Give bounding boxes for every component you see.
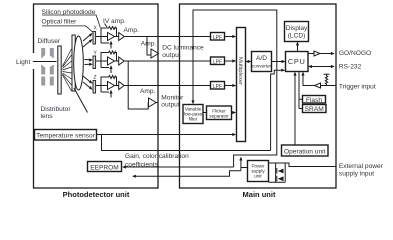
EEPROM — [88, 162, 122, 172]
distributor lens leader — [74, 88, 88, 113]
aperture slab column 2 upper — [50, 48, 54, 59]
svg-text:output: output — [162, 52, 181, 59]
wire flicker to multiplexer — [232, 111, 237, 114]
wire LPF1 to multiplexer — [225, 35, 237, 38]
wire LPF3 to multiplexer — [225, 84, 237, 87]
wire stub Z input — [101, 91, 109, 93]
LPF3 — [211, 82, 225, 91]
svg-text:RS-232: RS-232 — [339, 64, 362, 71]
aperture slab column 1 third — [41, 77, 45, 86]
svg-text:SRAM: SRAM — [305, 106, 324, 113]
wire temperature sensor to multiplexer — [97, 133, 237, 136]
op-amp A5 (monitor) — [149, 98, 157, 107]
SRAM memory — [303, 105, 327, 114]
gain control arrow Y — [109, 65, 112, 73]
svg-text:CPU: CPU — [288, 57, 306, 66]
svg-text:Temperature sensor: Temperature sensor — [36, 133, 95, 140]
wire diode X to IV amp — [96, 36, 108, 38]
svg-text:Light: Light — [16, 59, 30, 66]
svg-text:LPF: LPF — [213, 35, 222, 41]
wire Y channel to LPF2 — [125, 60, 211, 62]
resistor R feedback Y — [101, 51, 117, 68]
aperture slab column 1 upper — [41, 48, 45, 59]
wire trigger input — [301, 72, 336, 88]
aperture slab column 2 third — [50, 77, 54, 86]
wire flicker feed loop — [191, 10, 276, 167]
op-amp A6 (amp Z) — [119, 82, 125, 90]
variable low pass filter — [183, 105, 203, 124]
LPF1 — [211, 33, 225, 42]
resistor pull-up trigger — [324, 74, 330, 85]
wire coefficients to CPU — [271, 69, 286, 151]
op-amp U2 (IV amp Y) — [108, 57, 115, 65]
optical filter leader — [42, 26, 94, 33]
svg-text:GO/NOGO: GO/NOGO — [339, 50, 371, 57]
svg-text:unit: unit — [254, 174, 262, 179]
wire ADC to CPU — [272, 60, 286, 63]
svg-text:Flash: Flash — [306, 97, 322, 104]
operation unit — [282, 145, 329, 156]
op-amp A2 (amp X) — [119, 33, 125, 41]
svg-text:IV amp.: IV amp. — [103, 18, 126, 25]
power supply unit — [248, 161, 269, 182]
svg-text:Amp.: Amp. — [141, 41, 157, 48]
wire varLPF to flicker — [203, 112, 207, 114]
wire operation unit to CPU — [293, 72, 296, 145]
silicon photodiode leader — [42, 15, 100, 28]
aperture slab column 1 lower — [41, 65, 45, 75]
main unit enclosure — [180, 4, 337, 188]
svg-text:Optical filter: Optical filter — [42, 19, 78, 26]
LPF2 — [211, 57, 225, 66]
wire diode Y to IV amp — [96, 60, 108, 62]
photodetector unit enclosure — [32, 4, 158, 188]
svg-text:Multiplexer: Multiplexer — [237, 57, 243, 85]
distributor lens body — [72, 35, 83, 91]
gain control arrow Z — [109, 90, 112, 98]
diffuser plate — [58, 46, 61, 94]
wire Y IVamp to amp — [115, 60, 119, 62]
svg-text:Flicker: Flicker — [212, 108, 226, 113]
light rays to photodiode X — [83, 33, 93, 47]
svg-text:LPF: LPF — [213, 60, 222, 66]
svg-text:separator: separator — [209, 114, 229, 119]
wire CPU to display — [296, 42, 299, 52]
wire RS-232 — [308, 65, 335, 68]
svg-text:External power: External power — [339, 163, 384, 170]
diode protection network — [269, 163, 286, 182]
wire stub Y input — [101, 67, 109, 69]
gain control arrow X — [109, 41, 112, 49]
svg-text:Amp.: Amp. — [140, 88, 156, 95]
wire X IVamp to amp — [115, 36, 119, 38]
wire X channel to LPF1 — [125, 36, 211, 38]
svg-text:Amp.: Amp. — [124, 27, 140, 34]
photodiode Y — [93, 56, 96, 69]
resistor R feedback X — [101, 27, 117, 44]
svg-text:A/D: A/D — [256, 55, 267, 62]
aperture slab column 2 lower — [50, 65, 54, 75]
op-amp U3 (IV amp Z) — [108, 82, 115, 90]
wire LPF2 to multiplexer — [225, 59, 237, 62]
multiplexer — [237, 28, 246, 142]
svg-text:Main unit: Main unit — [243, 190, 276, 199]
resistor R feedback Z — [101, 76, 117, 93]
wire Z IVamp to amp — [115, 85, 119, 87]
svg-text:EEPROM: EEPROM — [90, 165, 119, 172]
photodiode Z — [93, 81, 96, 94]
photodiode X — [93, 32, 96, 45]
op-amp U1 (IV amp X) — [108, 33, 115, 41]
svg-text:Operation unit: Operation unit — [284, 149, 326, 156]
wire power supply output arrow — [239, 157, 247, 171]
svg-text:Monitor: Monitor — [161, 95, 184, 102]
wire Z channel to LPF3 — [125, 85, 211, 87]
svg-text:output: output — [161, 102, 180, 109]
svg-text:Diffuser: Diffuser — [38, 38, 61, 45]
svg-text:Photodetector unit: Photodetector unit — [63, 190, 130, 199]
wire temp branch down — [102, 135, 271, 151]
wire EEPROM data — [122, 165, 234, 168]
wire CPU to memories — [299, 72, 303, 109]
light input wire — [33, 61, 57, 63]
temperature sensor — [35, 130, 97, 141]
svg-text:(LCD): (LCD) — [288, 33, 306, 40]
wire diode Z to IV amp — [96, 85, 108, 87]
svg-text:lens: lens — [41, 113, 54, 120]
wire external power input — [269, 163, 337, 167]
svg-text:Display: Display — [286, 25, 308, 32]
wire GO/NOGO output — [308, 51, 335, 56]
light rays to photodiode Z — [83, 76, 93, 90]
svg-text:Distributor: Distributor — [41, 106, 72, 113]
wire monitor amp out — [156, 102, 158, 104]
svg-text:LPF: LPF — [213, 84, 222, 90]
svg-text:Gain, color calibration: Gain, color calibration — [125, 153, 189, 160]
wire monitor tap — [128, 61, 148, 109]
svg-text:filter: filter — [189, 117, 198, 122]
wire multiplexer to ADC — [246, 60, 252, 63]
flash memory — [303, 96, 326, 104]
svg-text:supply input: supply input — [339, 170, 374, 177]
wire DC luminance tap — [147, 37, 151, 56]
light rays fan — [63, 49, 72, 91]
svg-text:Trigger input: Trigger input — [339, 83, 376, 90]
light rays to photodiode Y — [85, 58, 93, 66]
op-amp A3 (DC luminance) — [151, 49, 159, 58]
display LCD — [285, 22, 309, 42]
svg-text:converter: converter — [252, 64, 272, 69]
svg-text:DC luminance: DC luminance — [162, 45, 204, 52]
wire power to photodetector — [132, 171, 241, 178]
op-amp A4 (amp Y) — [119, 57, 125, 65]
flicker separator — [207, 106, 232, 120]
CPU U5 — [286, 52, 309, 72]
IV amp leader — [105, 24, 108, 28]
A/D converter U4 — [252, 52, 272, 72]
wire stub X input — [101, 42, 109, 44]
